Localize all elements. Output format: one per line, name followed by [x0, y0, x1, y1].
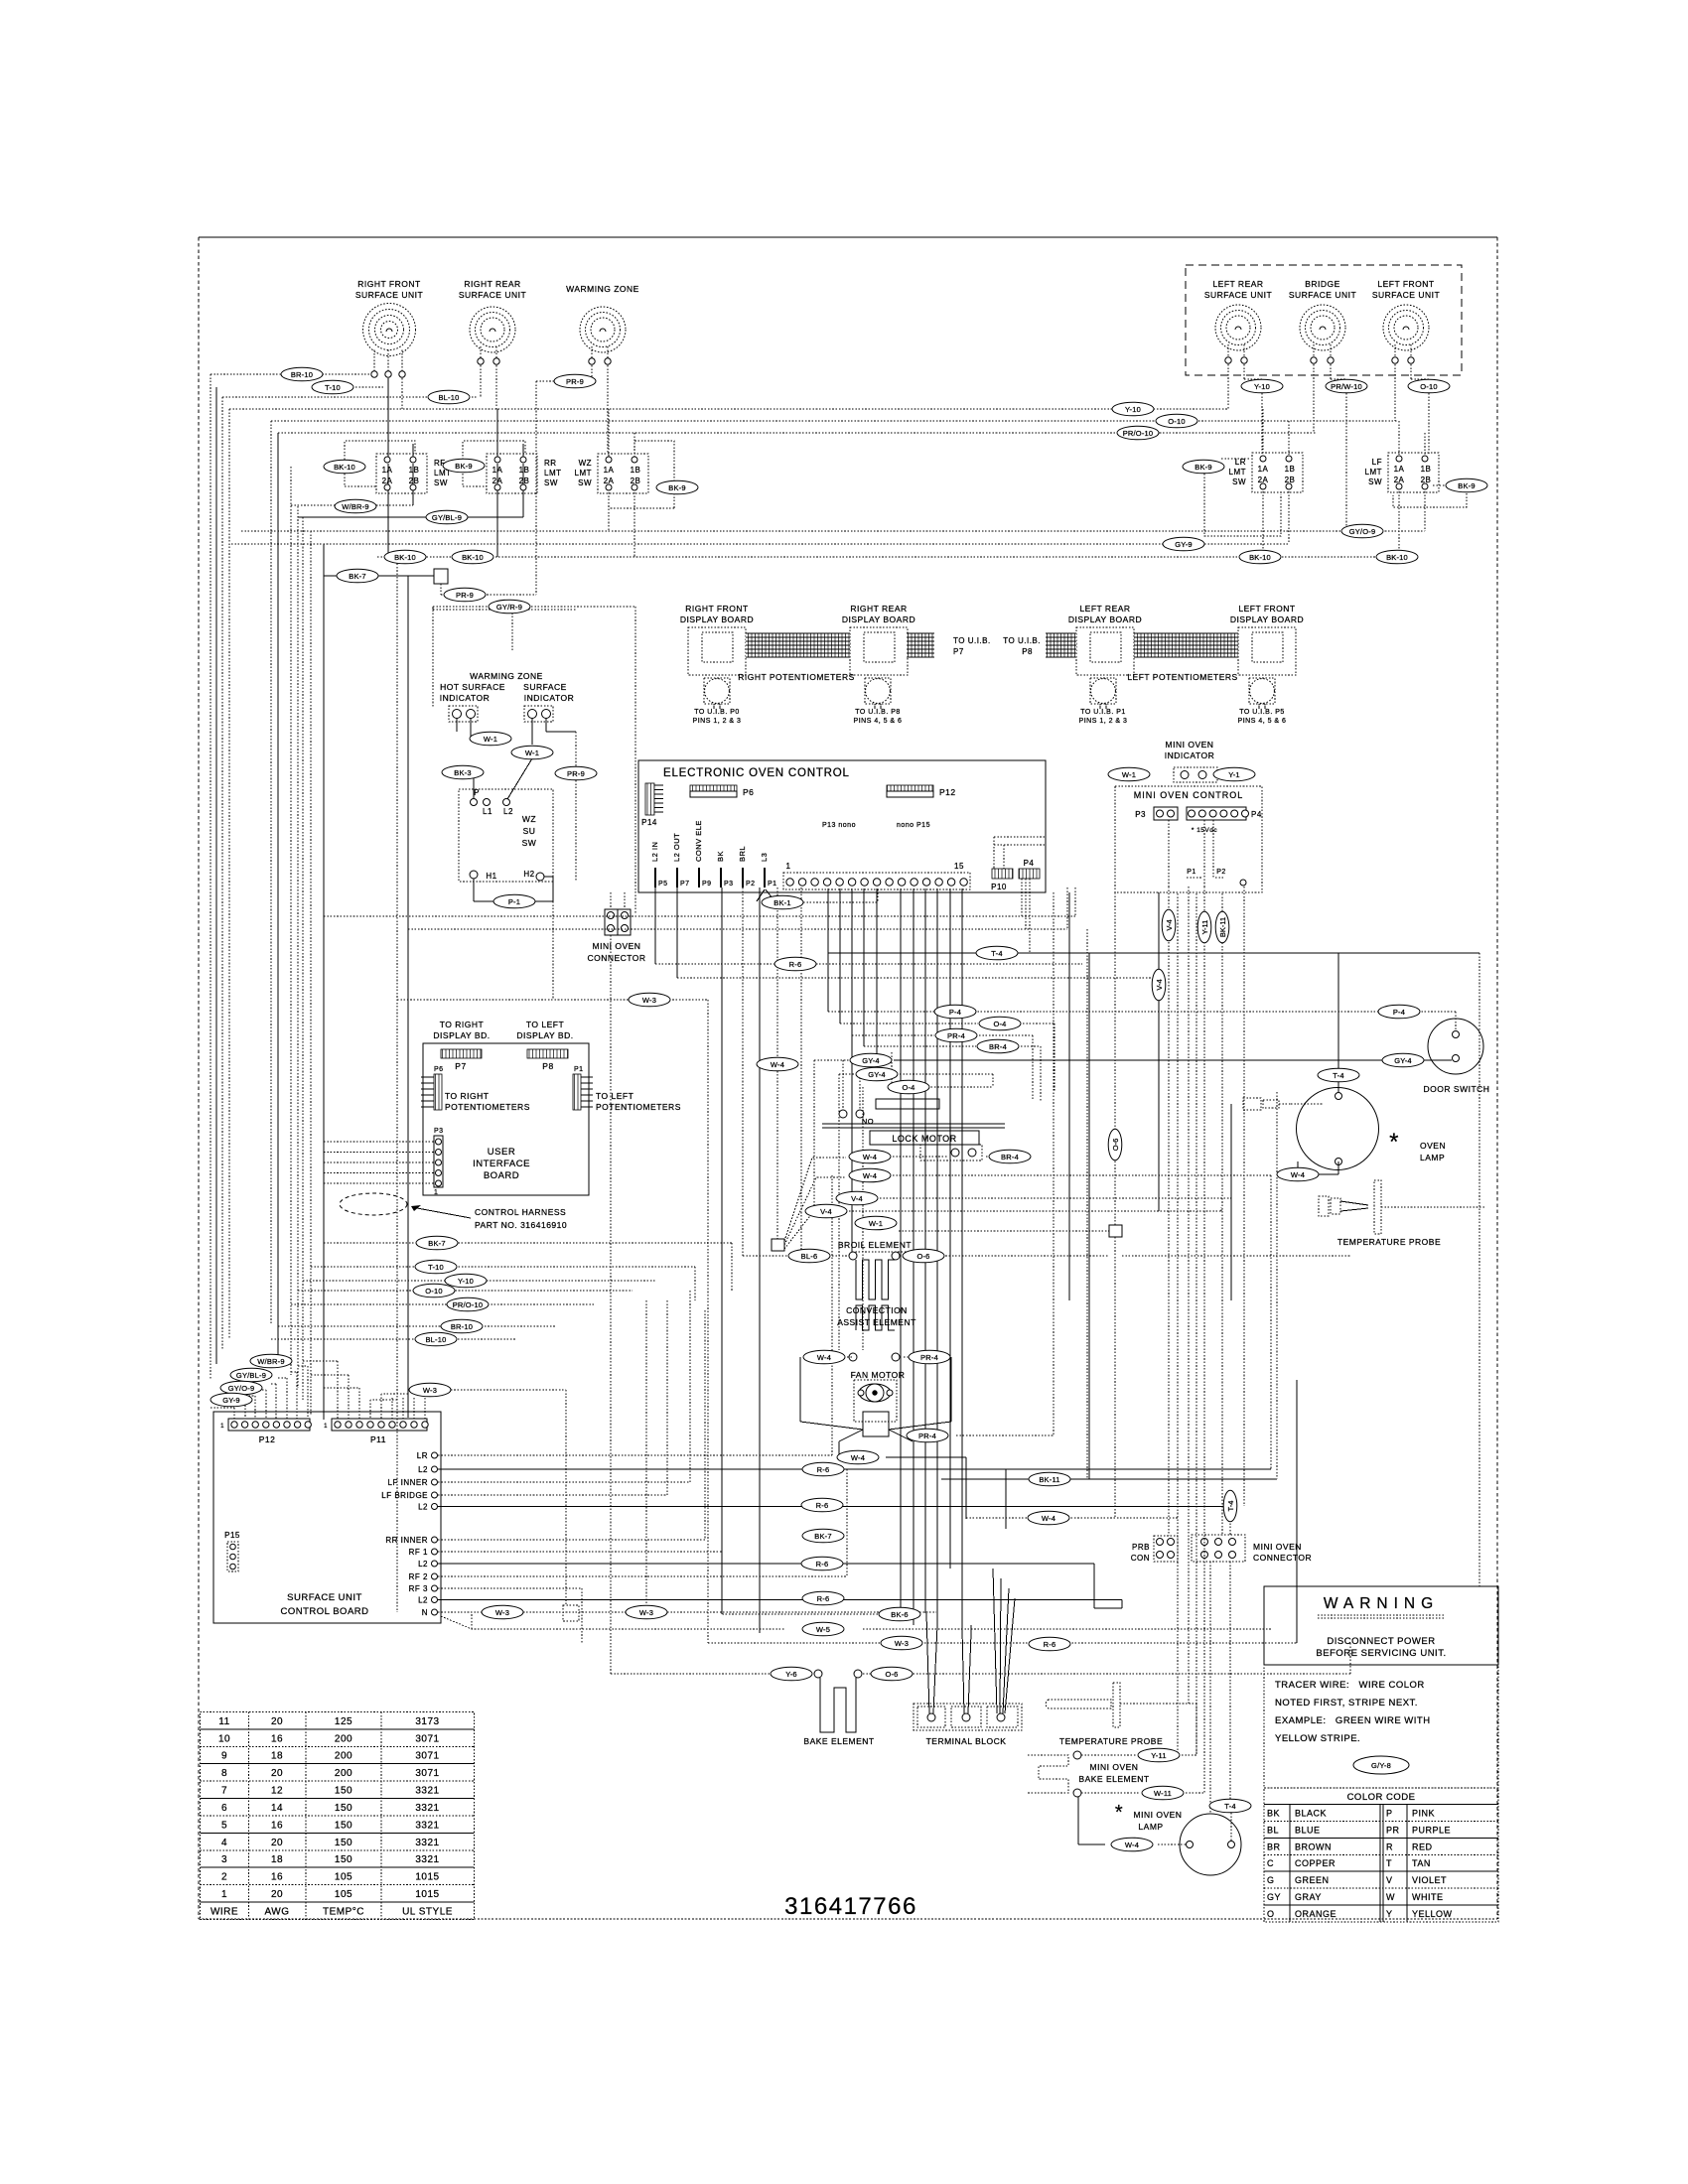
- svg-text:P3: P3: [434, 1128, 444, 1135]
- svg-text:USER: USER: [488, 1147, 515, 1158]
- svg-text:ASSIST ELEMENT: ASSIST ELEMENT: [837, 1317, 916, 1327]
- svg-text:16: 16: [271, 1872, 283, 1883]
- svg-text:TO LEFT: TO LEFT: [596, 1091, 633, 1101]
- svg-text:3173: 3173: [415, 1716, 439, 1727]
- svg-text:1: 1: [324, 1424, 328, 1430]
- svg-text:PRB: PRB: [1132, 1543, 1150, 1552]
- svg-text:VIOLET: VIOLET: [1412, 1875, 1447, 1885]
- svg-text:PR-9: PR-9: [456, 591, 474, 600]
- svg-text:BL-10: BL-10: [425, 1335, 446, 1344]
- svg-text:150: 150: [335, 1838, 352, 1848]
- svg-text:DISCONNECT POWER: DISCONNECT POWER: [1327, 1636, 1435, 1647]
- svg-text:SW: SW: [578, 478, 592, 487]
- svg-text:4: 4: [221, 1838, 227, 1848]
- svg-text:MINI OVEN CONTROL: MINI OVEN CONTROL: [1134, 790, 1244, 800]
- svg-text:1A: 1A: [382, 466, 393, 475]
- svg-text:P2: P2: [1216, 869, 1226, 876]
- svg-text:DISPLAY BOARD: DISPLAY BOARD: [1068, 614, 1142, 624]
- svg-text:BOARD: BOARD: [484, 1170, 519, 1181]
- svg-text:PR/O-10: PR/O-10: [1123, 429, 1154, 438]
- svg-text:GY-9: GY-9: [1175, 540, 1193, 549]
- svg-text:*: *: [1115, 1802, 1123, 1824]
- svg-text:P1: P1: [574, 1066, 584, 1073]
- svg-text:UL STYLE: UL STYLE: [402, 1906, 453, 1917]
- svg-text:P7: P7: [953, 647, 964, 656]
- svg-text:RIGHT POTENTIOMETERS: RIGHT POTENTIOMETERS: [738, 672, 855, 682]
- svg-text:YELLOW: YELLOW: [1412, 1909, 1453, 1919]
- svg-text:P: P: [474, 788, 480, 797]
- svg-text:BAKE ELEMENT: BAKE ELEMENT: [803, 1736, 874, 1746]
- svg-text:3071: 3071: [415, 1768, 439, 1779]
- svg-text:BR: BR: [1267, 1842, 1281, 1851]
- svg-text:L2: L2: [418, 1560, 428, 1569]
- svg-text:BK-7: BK-7: [428, 1239, 445, 1248]
- svg-text:1B: 1B: [1421, 465, 1432, 474]
- svg-text:T-4: T-4: [991, 949, 1002, 958]
- svg-text:WARNING: WARNING: [1324, 1595, 1439, 1612]
- svg-text:T-4: T-4: [1224, 1802, 1235, 1811]
- svg-text:BL-10: BL-10: [438, 393, 459, 402]
- svg-text:LF: LF: [1372, 458, 1382, 467]
- svg-text:L2 OUT: L2 OUT: [672, 833, 681, 862]
- svg-text:WZ: WZ: [579, 459, 592, 468]
- svg-text:3321: 3321: [415, 1838, 439, 1848]
- svg-text:nono P15: nono P15: [897, 822, 930, 829]
- svg-text:W-4: W-4: [851, 1453, 865, 1462]
- svg-text:200: 200: [335, 1751, 352, 1762]
- svg-text:RF 3: RF 3: [409, 1584, 428, 1593]
- svg-text:DISPLAY BOARD: DISPLAY BOARD: [680, 614, 754, 624]
- svg-text:SW: SW: [1368, 478, 1382, 486]
- svg-text:L2: L2: [503, 807, 513, 816]
- svg-text:BLUE: BLUE: [1295, 1825, 1321, 1835]
- svg-text:RED: RED: [1412, 1842, 1433, 1851]
- svg-text:SURFACE UNIT: SURFACE UNIT: [1204, 290, 1272, 300]
- svg-text:W-3: W-3: [639, 1608, 653, 1617]
- svg-text:AWG: AWG: [264, 1906, 289, 1917]
- svg-text:2B: 2B: [519, 477, 530, 485]
- svg-text:SW: SW: [1232, 478, 1246, 486]
- svg-text:MINI OVEN: MINI OVEN: [1166, 740, 1214, 750]
- svg-text:1A: 1A: [604, 466, 615, 475]
- svg-text:O-6: O-6: [885, 1670, 898, 1679]
- svg-text:SU: SU: [523, 826, 536, 836]
- svg-text:316417766: 316417766: [784, 1893, 917, 1920]
- svg-text:RIGHT REAR: RIGHT REAR: [850, 604, 907, 614]
- svg-text:3321: 3321: [415, 1803, 439, 1814]
- svg-text:R-6: R-6: [816, 1501, 829, 1510]
- svg-text:W/BR-9: W/BR-9: [342, 502, 368, 511]
- svg-text:T: T: [1386, 1858, 1392, 1868]
- svg-text:BK-7: BK-7: [349, 572, 365, 581]
- svg-text:L2: L2: [418, 1465, 428, 1474]
- svg-text:W-1: W-1: [869, 1219, 883, 1228]
- svg-text:PINS 4, 5 & 6: PINS 4, 5 & 6: [1238, 718, 1287, 725]
- svg-text:TO RIGHT: TO RIGHT: [445, 1091, 489, 1101]
- svg-text:1: 1: [786, 862, 791, 871]
- svg-text:105: 105: [335, 1889, 352, 1900]
- svg-text:8: 8: [221, 1768, 227, 1779]
- svg-text:BK-10: BK-10: [462, 553, 484, 562]
- svg-text:EXAMPLE: GREEN WIRE WITH: EXAMPLE: GREEN WIRE WITH: [1275, 1715, 1431, 1726]
- svg-text:BK-9: BK-9: [1458, 481, 1475, 490]
- svg-text:P6: P6: [743, 787, 754, 797]
- svg-text:TEMPERATURE PROBE: TEMPERATURE PROBE: [1059, 1736, 1163, 1746]
- svg-text:P1: P1: [1187, 869, 1196, 876]
- svg-text:P13 nono: P13 nono: [822, 822, 856, 829]
- svg-text:BRIDGE: BRIDGE: [1305, 279, 1340, 289]
- svg-text:BK-6: BK-6: [891, 1610, 908, 1619]
- svg-text:105: 105: [335, 1872, 352, 1883]
- svg-text:GY/BL-9: GY/BL-9: [236, 1371, 266, 1380]
- svg-text:C: C: [1267, 1858, 1274, 1868]
- svg-text:P-4: P-4: [1393, 1008, 1405, 1017]
- svg-text:14: 14: [271, 1803, 283, 1814]
- svg-text:DISPLAY BD.: DISPLAY BD.: [433, 1030, 490, 1040]
- svg-text:20: 20: [271, 1716, 283, 1727]
- svg-text:RF 2: RF 2: [409, 1572, 428, 1581]
- svg-text:OVEN: OVEN: [1420, 1141, 1446, 1151]
- svg-text:LF BRIDGE: LF BRIDGE: [381, 1491, 428, 1500]
- svg-text:TO RIGHT: TO RIGHT: [440, 1020, 484, 1029]
- svg-text:MINI OVEN: MINI OVEN: [1253, 1542, 1302, 1552]
- svg-text:ORANGE: ORANGE: [1295, 1909, 1336, 1919]
- svg-text:BK: BK: [716, 851, 725, 862]
- svg-text:Y-11: Y-11: [1200, 920, 1209, 935]
- svg-text:V-4: V-4: [851, 1194, 863, 1203]
- svg-text:TO U.I.B. P0: TO U.I.B. P0: [694, 709, 740, 716]
- svg-text:15: 15: [954, 862, 964, 871]
- svg-text:SURFACE UNIT: SURFACE UNIT: [1289, 290, 1356, 300]
- svg-text:Y-10: Y-10: [1125, 405, 1141, 414]
- svg-text:2B: 2B: [631, 477, 641, 485]
- svg-text:NOTED FIRST, STRIPE NEXT.: NOTED FIRST, STRIPE NEXT.: [1275, 1698, 1418, 1708]
- svg-text:R-6: R-6: [789, 960, 802, 969]
- svg-text:SURFACE UNIT: SURFACE UNIT: [355, 290, 423, 300]
- svg-text:L2 IN: L2 IN: [650, 842, 659, 862]
- svg-text:3: 3: [221, 1854, 227, 1865]
- svg-text:SURFACE UNIT: SURFACE UNIT: [1372, 290, 1440, 300]
- svg-text:SW: SW: [544, 478, 558, 487]
- svg-text:SURFACE UNIT: SURFACE UNIT: [459, 290, 526, 300]
- svg-text:6: 6: [221, 1803, 227, 1814]
- svg-text:L1: L1: [483, 807, 492, 816]
- svg-text:LEFT FRONT: LEFT FRONT: [1238, 604, 1295, 614]
- svg-text:O: O: [1267, 1909, 1275, 1919]
- svg-text:PR-4: PR-4: [947, 1031, 965, 1040]
- svg-text:P-1: P-1: [508, 897, 520, 906]
- svg-text:PR-4: PR-4: [918, 1432, 936, 1440]
- svg-text:CONV ELE: CONV ELE: [694, 820, 703, 862]
- svg-text:Y-10: Y-10: [1254, 382, 1270, 391]
- svg-text:BR-4: BR-4: [1001, 1153, 1019, 1161]
- svg-text:3321: 3321: [415, 1820, 439, 1831]
- svg-text:PR/O-10: PR/O-10: [453, 1300, 484, 1309]
- svg-text:Y: Y: [1386, 1909, 1393, 1919]
- svg-text:TO U.I.B. P5: TO U.I.B. P5: [1239, 709, 1285, 716]
- svg-text:P14: P14: [641, 818, 657, 827]
- svg-text:L2: L2: [418, 1503, 428, 1512]
- svg-text:7: 7: [221, 1786, 227, 1797]
- svg-text:LEFT POTENTIOMETERS: LEFT POTENTIOMETERS: [1127, 672, 1237, 682]
- svg-text:O-6: O-6: [916, 1252, 929, 1261]
- svg-text:BK-3: BK-3: [454, 768, 471, 777]
- svg-text:PR-9: PR-9: [566, 377, 584, 386]
- svg-text:PR-4: PR-4: [920, 1353, 938, 1362]
- svg-text:3321: 3321: [415, 1854, 439, 1865]
- svg-text:2A: 2A: [382, 477, 393, 485]
- svg-text:V-4: V-4: [820, 1207, 832, 1216]
- svg-text:COPPER: COPPER: [1295, 1858, 1336, 1868]
- svg-text:TO LEFT: TO LEFT: [526, 1020, 564, 1029]
- svg-text:P1: P1: [768, 881, 777, 887]
- svg-text:16: 16: [271, 1820, 283, 1831]
- svg-text:18: 18: [271, 1751, 283, 1762]
- svg-text:W-4: W-4: [1125, 1841, 1139, 1849]
- svg-text:MINI OVEN: MINI OVEN: [1134, 1810, 1183, 1820]
- svg-text:P11: P11: [370, 1434, 386, 1444]
- svg-text:GY-4: GY-4: [862, 1056, 880, 1065]
- svg-text:3071: 3071: [415, 1733, 439, 1744]
- svg-text:W-1: W-1: [1122, 770, 1136, 779]
- svg-text:PR-9: PR-9: [567, 769, 585, 778]
- svg-text:W/BR-9: W/BR-9: [257, 1357, 284, 1366]
- svg-text:150: 150: [335, 1854, 352, 1865]
- svg-text:R-6: R-6: [1044, 1640, 1056, 1649]
- svg-text:P7: P7: [455, 1061, 466, 1071]
- svg-text:GY-9: GY-9: [222, 1396, 240, 1405]
- svg-text:WIRE: WIRE: [211, 1906, 238, 1917]
- svg-text:INDICATOR: INDICATOR: [440, 693, 490, 703]
- svg-text:LEFT REAR: LEFT REAR: [1212, 279, 1263, 289]
- svg-text:PINS 1, 2 & 3: PINS 1, 2 & 3: [1079, 718, 1128, 725]
- svg-text:N: N: [422, 1608, 428, 1617]
- svg-text:GREEN: GREEN: [1295, 1875, 1330, 1885]
- svg-text:1A: 1A: [1394, 465, 1405, 474]
- svg-text:POTENTIOMETERS: POTENTIOMETERS: [445, 1102, 530, 1112]
- svg-text:3321: 3321: [415, 1786, 439, 1797]
- svg-text:W-3: W-3: [495, 1608, 509, 1617]
- svg-text:O-6: O-6: [1111, 1139, 1120, 1152]
- svg-text:2B: 2B: [409, 477, 420, 485]
- svg-text:1: 1: [220, 1424, 224, 1430]
- svg-text:W-4: W-4: [817, 1353, 831, 1362]
- svg-text:20: 20: [271, 1838, 283, 1848]
- svg-text:SURFACE: SURFACE: [523, 682, 567, 692]
- svg-text:TEMPERATURE PROBE: TEMPERATURE PROBE: [1337, 1237, 1441, 1247]
- svg-text:CON: CON: [1131, 1554, 1150, 1563]
- svg-text:20: 20: [271, 1768, 283, 1779]
- svg-text:W-3: W-3: [895, 1639, 909, 1648]
- svg-text:W-4: W-4: [1291, 1170, 1305, 1179]
- svg-text:TO U.I.B. P8: TO U.I.B. P8: [855, 709, 901, 716]
- svg-text:GY-4: GY-4: [1394, 1056, 1412, 1065]
- svg-text:GY: GY: [1267, 1892, 1281, 1902]
- svg-text:1: 1: [221, 1889, 227, 1900]
- svg-text:LEFT FRONT: LEFT FRONT: [1377, 279, 1434, 289]
- svg-text:PINK: PINK: [1412, 1808, 1435, 1818]
- svg-text:SW: SW: [434, 478, 448, 487]
- svg-text:BR-10: BR-10: [451, 1322, 473, 1331]
- svg-text:150: 150: [335, 1803, 352, 1814]
- svg-text:Y-10: Y-10: [458, 1277, 474, 1286]
- svg-text:CONNECTOR: CONNECTOR: [587, 953, 645, 963]
- svg-text:18: 18: [271, 1854, 283, 1865]
- svg-text:2B: 2B: [1421, 476, 1432, 484]
- svg-text:H2: H2: [523, 870, 534, 879]
- svg-text:L3: L3: [760, 853, 769, 862]
- svg-text:16: 16: [271, 1733, 283, 1744]
- svg-text:Y-11: Y-11: [1151, 1751, 1166, 1760]
- svg-text:W-4: W-4: [863, 1171, 877, 1180]
- svg-text:W-3: W-3: [423, 1386, 437, 1395]
- svg-text:G: G: [1267, 1875, 1275, 1885]
- svg-text:P2: P2: [746, 881, 756, 887]
- svg-text:BR-10: BR-10: [291, 370, 313, 379]
- svg-text:SURFACE UNIT: SURFACE UNIT: [287, 1592, 362, 1603]
- svg-text:BRL: BRL: [738, 846, 747, 862]
- svg-text:GRAY: GRAY: [1295, 1892, 1322, 1902]
- svg-text:20: 20: [271, 1889, 283, 1900]
- svg-text:BK-9: BK-9: [668, 483, 685, 492]
- svg-text:TRACER WIRE: WIRE COLOR: TRACER WIRE: WIRE COLOR: [1275, 1680, 1425, 1691]
- svg-text:150: 150: [335, 1820, 352, 1831]
- svg-text:TERMINAL BLOCK: TERMINAL BLOCK: [926, 1736, 1007, 1746]
- svg-text:L2: L2: [418, 1596, 428, 1605]
- svg-text:POTENTIOMETERS: POTENTIOMETERS: [596, 1102, 681, 1112]
- svg-text:YELLOW STRIPE.: YELLOW STRIPE.: [1275, 1733, 1360, 1744]
- svg-text:O-10: O-10: [1420, 382, 1437, 391]
- svg-text:PURPLE: PURPLE: [1412, 1825, 1451, 1835]
- svg-text:T-10: T-10: [325, 383, 341, 392]
- svg-text:P8: P8: [542, 1061, 553, 1071]
- svg-text:SW: SW: [522, 838, 537, 848]
- svg-text:2: 2: [221, 1872, 227, 1883]
- svg-text:PR/W-10: PR/W-10: [1331, 382, 1362, 391]
- svg-text:1015: 1015: [415, 1889, 439, 1900]
- svg-text:1A: 1A: [1258, 465, 1269, 474]
- svg-text:WARMING ZONE: WARMING ZONE: [470, 671, 543, 681]
- svg-text:V: V: [1386, 1875, 1393, 1885]
- svg-text:MINI OVEN: MINI OVEN: [1090, 1762, 1139, 1772]
- svg-text:LF INNER: LF INNER: [388, 1478, 428, 1487]
- svg-text:W-1: W-1: [525, 749, 539, 757]
- svg-text:CONTROL BOARD: CONTROL BOARD: [280, 1606, 368, 1617]
- svg-text:P9: P9: [702, 881, 712, 887]
- svg-text:RIGHT REAR: RIGHT REAR: [464, 279, 520, 289]
- svg-text:P: P: [1386, 1808, 1393, 1818]
- svg-text:INDICATOR: INDICATOR: [524, 693, 574, 703]
- svg-text:P3: P3: [724, 881, 734, 887]
- svg-text:W: W: [1386, 1892, 1395, 1902]
- svg-text:BK: BK: [1267, 1808, 1280, 1818]
- svg-text:BL-6: BL-6: [801, 1252, 818, 1261]
- svg-text:V-4: V-4: [1155, 979, 1164, 990]
- svg-text:O-4: O-4: [902, 1083, 914, 1092]
- svg-text:BK-11: BK-11: [1218, 917, 1227, 937]
- svg-text:RIGHT FRONT: RIGHT FRONT: [357, 279, 420, 289]
- svg-text:2B: 2B: [1285, 476, 1296, 484]
- svg-text:RF 1: RF 1: [409, 1548, 428, 1557]
- svg-text:WZ: WZ: [522, 814, 536, 824]
- svg-text:BROWN: BROWN: [1295, 1842, 1332, 1851]
- svg-text:150: 150: [335, 1786, 352, 1797]
- svg-text:LMT: LMT: [575, 469, 593, 478]
- svg-text:CONVECTION: CONVECTION: [846, 1305, 908, 1315]
- svg-text:W-1: W-1: [484, 735, 497, 744]
- svg-text:200: 200: [335, 1768, 352, 1779]
- svg-text:TO U.I.B. P1: TO U.I.B. P1: [1080, 709, 1126, 716]
- svg-text:3071: 3071: [415, 1751, 439, 1762]
- svg-text:1B: 1B: [1285, 465, 1296, 474]
- svg-text:BK-7: BK-7: [814, 1532, 831, 1541]
- svg-text:RR INNER: RR INNER: [385, 1536, 428, 1545]
- svg-text:1B: 1B: [409, 466, 420, 475]
- svg-text:O-4: O-4: [993, 1020, 1006, 1028]
- svg-text:BK-10: BK-10: [1386, 553, 1408, 562]
- svg-text:BK-10: BK-10: [334, 463, 355, 472]
- svg-text:P8: P8: [1022, 647, 1033, 656]
- svg-text:P12: P12: [259, 1434, 276, 1444]
- svg-text:MINI OVEN: MINI OVEN: [593, 941, 641, 951]
- svg-text:5: 5: [221, 1820, 227, 1831]
- svg-text:LAMP: LAMP: [1138, 1822, 1163, 1832]
- svg-text:H1: H1: [486, 872, 496, 881]
- svg-text:GY/O-9: GY/O-9: [1349, 527, 1376, 536]
- svg-text:W-4: W-4: [771, 1060, 784, 1069]
- svg-text:125: 125: [335, 1716, 352, 1727]
- svg-text:BAKE ELEMENT: BAKE ELEMENT: [1078, 1774, 1149, 1784]
- svg-text:T-4: T-4: [1333, 1071, 1343, 1080]
- svg-text:P5: P5: [658, 881, 668, 887]
- svg-text:LMT: LMT: [1229, 468, 1247, 477]
- svg-text:9: 9: [221, 1751, 227, 1762]
- svg-text:1: 1: [434, 1189, 438, 1196]
- svg-text:11: 11: [218, 1716, 229, 1727]
- svg-text:P-4: P-4: [949, 1008, 961, 1017]
- svg-text:R-6: R-6: [816, 1560, 829, 1569]
- svg-text:PINS 4, 5 & 6: PINS 4, 5 & 6: [854, 718, 903, 725]
- svg-text:R: R: [1386, 1842, 1393, 1851]
- svg-text:200: 200: [335, 1733, 352, 1744]
- svg-text:LR: LR: [417, 1451, 428, 1460]
- svg-text:W-11: W-11: [1154, 1789, 1172, 1798]
- svg-text:LEFT REAR: LEFT REAR: [1079, 604, 1130, 614]
- svg-text:BK-1: BK-1: [774, 898, 790, 907]
- svg-text:Y-1: Y-1: [1228, 770, 1240, 779]
- svg-text:P7: P7: [680, 881, 690, 887]
- svg-text:WARMING ZONE: WARMING ZONE: [566, 284, 639, 294]
- svg-text:W-3: W-3: [642, 996, 656, 1005]
- svg-text:T-10: T-10: [428, 1263, 444, 1272]
- svg-text:RR: RR: [544, 459, 557, 468]
- svg-text:W-4: W-4: [863, 1153, 877, 1161]
- svg-text:O-10: O-10: [425, 1287, 442, 1296]
- svg-text:COLOR CODE: COLOR CODE: [1347, 1792, 1416, 1803]
- svg-text:INTERFACE: INTERFACE: [473, 1159, 530, 1169]
- svg-text:P12: P12: [939, 787, 956, 797]
- svg-text:PART NO. 316416910: PART NO. 316416910: [475, 1220, 567, 1230]
- svg-text:ELECTRONIC OVEN CONTROL: ELECTRONIC OVEN CONTROL: [663, 767, 850, 779]
- svg-text:BK-11: BK-11: [1039, 1475, 1059, 1484]
- svg-text:12: 12: [271, 1786, 283, 1797]
- svg-text:GY/O-9: GY/O-9: [228, 1384, 255, 1393]
- svg-text:PR: PR: [1386, 1825, 1400, 1835]
- svg-text:TO U.I.B.: TO U.I.B.: [953, 636, 991, 645]
- svg-text:R-6: R-6: [817, 1465, 830, 1474]
- svg-text:V-4: V-4: [1165, 919, 1174, 930]
- svg-text:LMT: LMT: [544, 469, 562, 478]
